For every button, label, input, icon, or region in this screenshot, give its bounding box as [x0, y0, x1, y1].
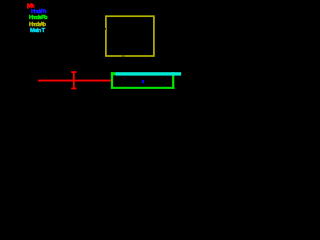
- layout box (olive rectangle): [106, 16, 154, 56]
- component body bottom edge (green): [111, 87, 174, 89]
- bus bar (cyan): [116, 72, 182, 75]
- component body top edge segment (green): [111, 72, 117, 75]
- svg-text:Main T: Main T: [30, 28, 46, 34]
- svg-text:Hmds Ph: Hmds Ph: [31, 9, 47, 15]
- probe vertical bar (red): [73, 71, 75, 89]
- component body right edge (green): [172, 72, 174, 89]
- dim segment on bottom edge of layout box: [122, 55, 125, 57]
- svg-text:Hmds Pb: Hmds Pb: [29, 15, 48, 21]
- probe top tick: [71, 71, 76, 73]
- svg-text:Hmds Ab: Hmds Ab: [29, 22, 47, 28]
- probe bottom tick: [71, 88, 76, 90]
- pin dot (blue): [142, 80, 144, 83]
- wire (red horizontal): [38, 80, 112, 82]
- notch on left edge of layout box: [104, 28, 107, 30]
- parts list text line 1 descender: [27, 7, 29, 8]
- component body left edge (green): [111, 72, 113, 89]
